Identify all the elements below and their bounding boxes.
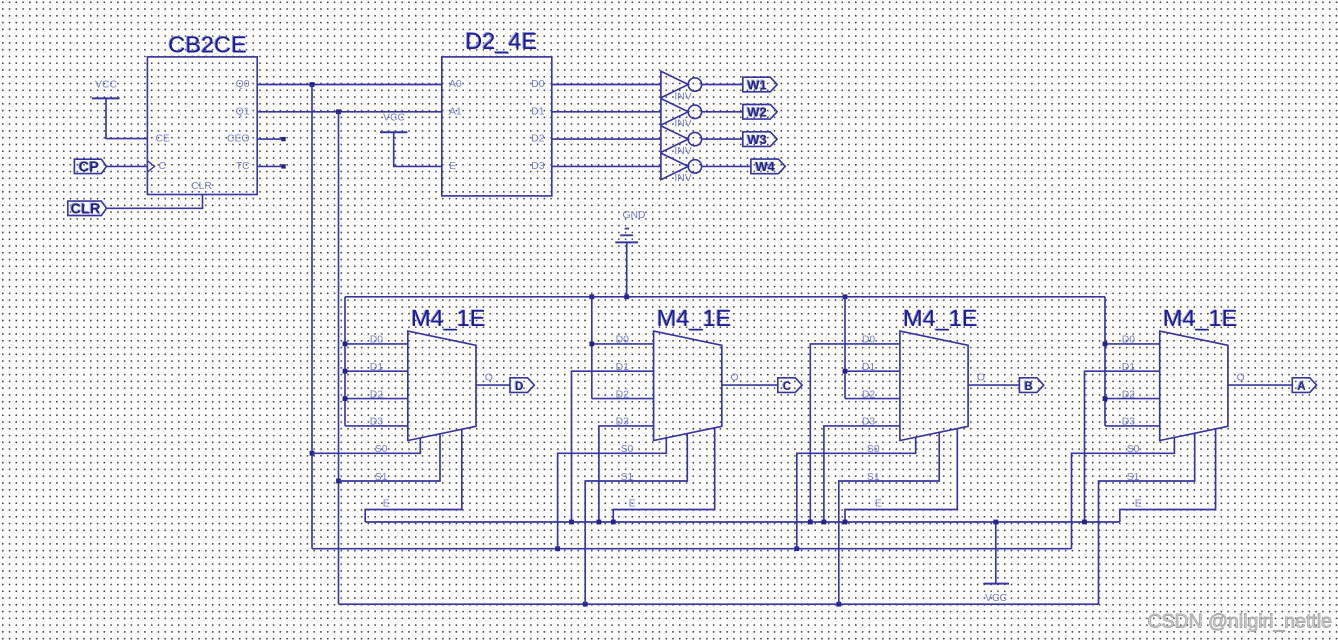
- wire S1 mux2: [585, 434, 687, 605]
- wire O output mux4: [1228, 384, 1292, 386]
- junction D0 mux4: [1103, 342, 1108, 347]
- wire GND drop mux1: [344, 297, 346, 426]
- svg-text:B: B: [1024, 381, 1032, 393]
- mux U8 M4_1E body: [654, 331, 722, 440]
- output flag B: [1019, 378, 1043, 393]
- svg-text:A0: A0: [449, 79, 462, 90]
- wire D1 net mux2: [572, 371, 654, 522]
- power VCC symbol 3 wire: [995, 522, 997, 584]
- svg-text:CLR: CLR: [191, 181, 212, 192]
- wire VCC bus horizontal: [365, 521, 1120, 523]
- inverter U6 bubble: [688, 160, 701, 173]
- input flag CLR: [68, 201, 107, 218]
- watermark: [1147, 611, 1332, 633]
- svg-text:M4_1E: M4_1E: [411, 305, 485, 331]
- wire D2 stub mux2: [592, 398, 654, 400]
- mux U9 title: [902, 304, 977, 331]
- wire inverter to W2: [702, 111, 743, 113]
- junction S1 mux2: [583, 602, 588, 607]
- inverter U3 label INV: [674, 91, 691, 102]
- svg-text:E: E: [875, 499, 882, 510]
- wire E mux3: [845, 429, 957, 523]
- wire O output mux3: [968, 384, 1019, 386]
- junction S0 mux1: [310, 451, 315, 456]
- wire Q0 vertical drop: [311, 85, 313, 549]
- junction D0 mux2: [589, 342, 594, 347]
- svg-text:D2_4E: D2_4E: [465, 28, 537, 54]
- output flag W2: [743, 104, 777, 120]
- wire GND drop mux4: [1104, 297, 1106, 426]
- counter U1 CB2CE body: [147, 57, 257, 195]
- junction VCC tap: [993, 520, 998, 525]
- decoder U2 title: [464, 27, 537, 54]
- pin label S1 mux2: [621, 472, 634, 483]
- junction D1 mux3: [843, 369, 848, 374]
- wire O output mux2: [722, 384, 778, 386]
- svg-text:VCC: VCC: [383, 113, 405, 124]
- output flag W3: [743, 131, 777, 147]
- svg-text:CP: CP: [79, 159, 99, 175]
- wire VCC to CE pin: [106, 98, 147, 138]
- junction D1 vcc mux4: [1082, 520, 1087, 525]
- svg-text:D0: D0: [531, 79, 545, 90]
- wire D3 stub mux4: [1105, 425, 1160, 427]
- clock triangle pin C: [147, 161, 154, 172]
- output flag A: [1292, 378, 1316, 393]
- pin label CE: [156, 134, 171, 145]
- svg-text:W2: W2: [747, 105, 767, 120]
- pin label D2 dec: [531, 134, 545, 145]
- wire S0 mux1: [312, 438, 420, 453]
- wire GND to bus: [626, 242, 628, 296]
- pin label O mux2: [731, 372, 739, 383]
- pin label D1 mux3: [862, 362, 876, 373]
- pin label S1 mux3: [867, 472, 880, 483]
- wire GND bus horizontal: [345, 296, 1105, 298]
- wire CLR to CLR pin: [106, 195, 202, 209]
- junction D3 vcc mux2: [597, 520, 602, 525]
- wire inverter to W1: [702, 84, 743, 86]
- pin label A0: [449, 79, 462, 90]
- junction GND bus mux3: [843, 294, 848, 299]
- wire GND drop mux2: [591, 297, 593, 399]
- wire D3 net mux2: [599, 426, 654, 522]
- wire GND drop mux3: [844, 297, 846, 399]
- pin label D3 mux3: [862, 417, 876, 428]
- svg-text:CLR: CLR: [71, 201, 101, 217]
- wire CP to C pin: [107, 165, 148, 167]
- pin label S1 mux4: [1127, 472, 1140, 483]
- junction Q0 tap: [310, 82, 315, 87]
- wire D2 decoder to inverter: [552, 138, 661, 140]
- pin label E mux1: [383, 499, 390, 510]
- power VCC symbol 3 bar: [983, 583, 1009, 585]
- pin label Q1: [236, 106, 250, 117]
- mux U10 M4_1E body: [1160, 331, 1228, 440]
- inverter U4 label INV: [674, 119, 691, 130]
- terminator CEO: [281, 137, 285, 141]
- mux U7 M4_1E body: [408, 331, 476, 440]
- svg-text:INV: INV: [674, 146, 691, 157]
- junction S1 mux1: [336, 479, 341, 484]
- wire E mux4: [1120, 429, 1216, 522]
- junction E vcc mux2: [611, 520, 616, 525]
- pin label D3 dec: [531, 161, 545, 172]
- junction D2 mux4: [1103, 396, 1108, 401]
- svg-text:E: E: [383, 499, 390, 510]
- wire D0 stub mux4: [1105, 343, 1160, 345]
- svg-text:D3: D3: [531, 161, 545, 172]
- pin label E mux2: [629, 499, 636, 510]
- pin label D2 mux4: [1122, 389, 1136, 400]
- decoder U2 D2_4E body: [442, 57, 552, 196]
- inverter U3 INV triangle: [661, 71, 688, 98]
- svg-text:INV: INV: [674, 91, 691, 102]
- wire D0 stub mux2: [592, 343, 654, 345]
- svg-text:E: E: [1135, 499, 1142, 510]
- junction S0 mux3: [794, 546, 799, 551]
- svg-text:A: A: [1297, 381, 1305, 393]
- svg-text:E: E: [629, 499, 636, 510]
- pin label S0 mux1: [375, 444, 388, 455]
- svg-text:O: O: [977, 372, 985, 383]
- terminator TC: [281, 164, 285, 168]
- wire D3 decoder to inverter: [552, 165, 661, 167]
- junction S1 mux3: [836, 602, 841, 607]
- pin label S1 mux1: [375, 472, 388, 483]
- wire D1 stub mux1: [345, 370, 408, 372]
- svg-text:INV: INV: [674, 173, 691, 184]
- wire S1 bus horizontal: [339, 603, 1099, 605]
- inverter U6 INV triangle: [661, 153, 688, 180]
- power VCC symbol 1 bar: [92, 97, 120, 99]
- pin label D0 mux3: [862, 335, 876, 346]
- wire S1 mux1: [339, 434, 441, 481]
- wire inverter to W3: [702, 138, 743, 140]
- svg-text:Q1: Q1: [236, 106, 250, 117]
- junction D1 vcc mux2: [569, 520, 574, 525]
- pin label D1 mux4: [1122, 362, 1136, 373]
- wire VCC to E pin: [394, 132, 442, 166]
- pin label S0 mux4: [1127, 444, 1140, 455]
- ground GND label: [622, 210, 645, 221]
- output flag C: [778, 378, 802, 393]
- pin label Q0: [236, 79, 250, 90]
- junction GND bus mux2: [589, 294, 594, 299]
- pin label D0 mux2: [616, 335, 630, 346]
- pin label D2 mux3: [862, 389, 876, 400]
- output flag D: [510, 378, 534, 393]
- svg-text:D: D: [515, 381, 523, 393]
- wire D0 decoder to inverter: [552, 84, 661, 86]
- pin label D1 mux1: [370, 362, 384, 373]
- wire D2 stub mux3: [845, 398, 900, 400]
- pin label D3 mux1: [370, 417, 384, 428]
- svg-text:VCC: VCC: [985, 593, 1007, 604]
- svg-text:D2: D2: [531, 134, 545, 145]
- wire E mux2: [613, 428, 714, 522]
- wire S1 mux3: [839, 432, 939, 604]
- wire D3 net mux3: [824, 426, 900, 522]
- svg-text:M4_1E: M4_1E: [1163, 305, 1237, 331]
- pin label O mux4: [1237, 372, 1245, 383]
- svg-text:O: O: [485, 372, 493, 383]
- pin label S0 mux3: [867, 444, 880, 455]
- wire D1 stub mux3: [845, 370, 900, 372]
- pin label E mux4: [1135, 499, 1142, 510]
- pin label D0 dec: [531, 79, 545, 90]
- svg-text:INV: INV: [674, 119, 691, 130]
- power VCC symbol 2 label: [383, 113, 405, 124]
- junction GND bus symbol: [624, 294, 629, 299]
- svg-text:Q0: Q0: [236, 79, 250, 90]
- junction E vcc mux3: [843, 520, 848, 525]
- svg-text:VCC: VCC: [95, 80, 117, 91]
- svg-text:W3: W3: [747, 132, 767, 147]
- svg-text:CE: CE: [156, 134, 171, 145]
- svg-text:A1: A1: [449, 106, 462, 117]
- wire D1 net mux4: [1085, 371, 1160, 522]
- pin label D2 mux2: [616, 389, 630, 400]
- power VCC symbol 2 bar: [380, 131, 407, 133]
- pin label D0 mux4: [1122, 335, 1136, 346]
- mux U10 title: [1162, 304, 1237, 331]
- wire S0 mux3: [797, 437, 916, 549]
- svg-text:CEO: CEO: [227, 134, 250, 145]
- pin label E mux3: [875, 499, 882, 510]
- counter U1 title: [167, 31, 246, 58]
- junction D0 mux1: [343, 342, 348, 347]
- pin label A1: [449, 106, 462, 117]
- mux U8 title: [656, 304, 731, 331]
- wire D2 stub mux4: [1105, 398, 1160, 400]
- junction D0 vcc mux3: [808, 520, 813, 525]
- wire E mux1: [365, 429, 462, 522]
- pin label D3 mux2: [616, 417, 630, 428]
- svg-text:GND: GND: [622, 210, 645, 221]
- pin label TC: [236, 161, 250, 172]
- svg-text:W1: W1: [747, 77, 767, 92]
- inverter U4 INV triangle: [661, 99, 688, 126]
- wire S0 mux4: [1072, 437, 1175, 548]
- input flag CP: [74, 159, 106, 176]
- output flag W1: [743, 77, 777, 93]
- junction D1 mux1: [343, 369, 348, 374]
- pin label D1 dec: [531, 106, 545, 117]
- pin label O mux3: [977, 372, 985, 383]
- mux U7 title: [410, 304, 485, 331]
- svg-text:CSDN @nilgiri_nettle: CSDN @nilgiri_nettle: [1147, 611, 1332, 633]
- pin label CEO: [227, 134, 250, 145]
- inverter U5 bubble: [688, 132, 701, 145]
- svg-text:W4: W4: [755, 159, 775, 174]
- pin label E decoder: [449, 161, 456, 172]
- power VCC symbol 3 label: [985, 593, 1007, 604]
- wire D2 stub mux1: [345, 398, 408, 400]
- svg-text:C: C: [159, 161, 167, 172]
- wire inverter to W4: [702, 165, 751, 167]
- pin label S0 mux2: [621, 444, 634, 455]
- wire D3 stub mux1: [345, 425, 408, 427]
- wire TC stub: [257, 165, 282, 167]
- wire CEO stub: [257, 138, 282, 140]
- junction D2 mux1: [343, 396, 348, 401]
- wire D0 net mux3: [810, 344, 900, 522]
- wire Q1 vertical drop: [338, 112, 340, 604]
- junction D3 vcc mux3: [822, 520, 827, 525]
- wire S0 mux2: [558, 438, 667, 549]
- pin label C: [159, 161, 167, 172]
- pin label D2 mux1: [370, 389, 384, 400]
- pin label CLR bottom: [191, 181, 212, 192]
- inverter U4 bubble: [688, 105, 701, 118]
- pin label D3 mux4: [1122, 417, 1136, 428]
- svg-text:TC: TC: [236, 161, 250, 172]
- wire Q1 net horizontal: [257, 111, 442, 113]
- pin label O mux1: [485, 372, 493, 383]
- pin label D0 mux1: [370, 335, 384, 346]
- ground symbol bars: [615, 229, 638, 243]
- wire Q0 net horizontal: [257, 84, 442, 86]
- power VCC symbol 1 label: [95, 80, 117, 91]
- pin label D1 mux2: [616, 362, 630, 373]
- svg-text:CB2CE: CB2CE: [168, 32, 246, 58]
- wire D1 decoder to inverter: [552, 111, 661, 113]
- inverter U5 INV triangle: [661, 126, 688, 153]
- wire D0 stub mux1: [345, 343, 408, 345]
- svg-text:O: O: [1237, 372, 1245, 383]
- inverter U6 label INV: [674, 173, 691, 184]
- svg-text:O: O: [731, 372, 739, 383]
- wire S1 mux4: [1099, 433, 1195, 604]
- output flag W4: [751, 159, 785, 175]
- mux U9 M4_1E body: [900, 331, 968, 440]
- svg-text:E: E: [449, 161, 456, 172]
- inverter U3 bubble: [688, 78, 701, 91]
- junction Q1 tap: [336, 109, 341, 114]
- inverter U5 label INV: [674, 146, 691, 157]
- junction S0 mux2: [555, 546, 560, 551]
- wire O output mux1: [476, 384, 510, 386]
- svg-text:C: C: [783, 381, 791, 393]
- svg-text:M4_1E: M4_1E: [903, 305, 977, 331]
- svg-text:D1: D1: [531, 106, 545, 117]
- svg-text:M4_1E: M4_1E: [657, 305, 731, 331]
- wire S0 bus horizontal: [312, 548, 1072, 550]
